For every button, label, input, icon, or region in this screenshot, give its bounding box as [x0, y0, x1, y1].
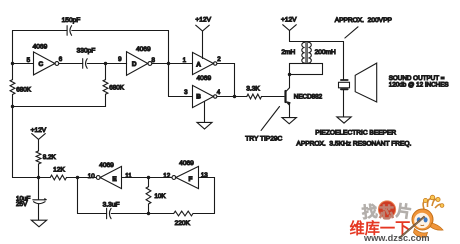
wire: rectangle loop below transformer windings	[290, 64, 323, 75]
inverter D (4069)	[127, 52, 148, 76]
wire: piezo to ground	[343, 90, 345, 117]
svg-text:4069: 4069	[99, 162, 114, 169]
svg-text:www.dzsc.com: www.dzsc.com	[363, 233, 430, 243]
resistor 680K left (in left rail)	[10, 80, 15, 95]
wire: B input from feedback rail	[169, 96, 193, 98]
power arrow +12V (A supply)	[196, 25, 210, 31]
svg-text:4069: 4069	[179, 160, 194, 167]
svg-text:片: 片	[395, 201, 413, 222]
svg-text:11: 11	[125, 172, 132, 179]
svg-text:+12V: +12V	[281, 17, 297, 24]
resistor 680K right	[103, 80, 108, 95]
node: junction at 680K right / D input	[104, 62, 107, 65]
svg-text:D: D	[132, 61, 137, 68]
wire: 10uF branch down	[38, 178, 40, 200]
svg-text:9: 9	[118, 56, 122, 63]
mascot arm/tail to the right	[431, 223, 444, 230]
wire: feedback vertical at x=77.8	[77, 178, 79, 214]
svg-text:+12V: +12V	[31, 127, 47, 134]
svg-text:APPROX. 200VPP: APPROX. 200VPP	[335, 17, 393, 24]
svg-text:12K: 12K	[53, 166, 65, 173]
node: 8.2K / 10uF junction	[37, 176, 40, 179]
svg-text:PIEZOELECTRIC BEEPER: PIEZOELECTRIC BEEPER	[315, 129, 396, 136]
wire: top feedback rail y=30.4	[13, 30, 169, 32]
svg-text:4069: 4069	[196, 75, 211, 82]
mascot crown	[423, 199, 441, 209]
svg-text:NECD882: NECD882	[294, 93, 323, 100]
svg-text:C: C	[38, 61, 43, 68]
inverter E (4069), output bubble at left	[96, 176, 100, 180]
transistor Q1 NECD882: base bar	[284, 91, 286, 102]
svg-text:680K: 680K	[16, 87, 32, 94]
svg-text:F: F	[189, 176, 193, 183]
wire: B ground stem	[204, 102, 206, 123]
ground under inverter B	[197, 122, 212, 129]
resistor 8.2K	[36, 151, 41, 164]
svg-text:E: E	[112, 176, 117, 183]
node: bottom wire junction on left rail	[11, 105, 14, 108]
node: A/B outputs join	[233, 95, 236, 98]
svg-text:8.2K: 8.2K	[43, 154, 57, 161]
svg-text:200mH: 200mH	[315, 49, 336, 56]
wire: output drop to piezo	[343, 42, 345, 80]
transformer T1 primary winding 2mH	[302, 42, 305, 63]
svg-text:3.3K: 3.3K	[246, 85, 260, 92]
resistor 220K	[174, 211, 193, 216]
wire: supply stem into A	[202, 31, 204, 59]
wire: F input corner down	[199, 178, 215, 214]
transistor collector	[286, 75, 290, 92]
svg-text:5: 5	[27, 57, 31, 64]
ground under emitter	[282, 118, 296, 124]
svg-text:1: 1	[183, 57, 187, 64]
transistor emitter with arrow	[286, 101, 290, 117]
node: feedback rail joins A input	[167, 62, 170, 65]
wire: C output to 330pF	[59, 63, 83, 65]
wire: +12V stem to transformer top	[289, 31, 291, 42]
svg-text:TRY TIP29C: TRY TIP29C	[245, 136, 282, 143]
wire: C input	[13, 63, 34, 65]
svg-text:25V: 25V	[16, 201, 28, 208]
svg-text:6: 6	[59, 56, 63, 63]
wire: stem to 8.2K	[38, 139, 40, 151]
power arrow +12V (transformer)	[283, 25, 297, 31]
svg-text:4069: 4069	[136, 46, 151, 53]
node: 10K tap junction	[147, 176, 150, 179]
wire: A output corner down to B output	[217, 64, 235, 97]
wire: B output to 3.3K	[217, 96, 247, 98]
svg-text:12: 12	[163, 172, 170, 179]
svg-text:4069: 4069	[33, 44, 48, 51]
svg-text:10: 10	[88, 173, 95, 180]
svg-text:8: 8	[151, 57, 155, 64]
capacitor 3.3uF	[106, 208, 108, 218]
ground under 10uF	[31, 220, 46, 227]
transformer T1 secondary winding 200mH	[308, 42, 311, 63]
speaker horn	[355, 63, 377, 102]
wire: transformer top rail	[290, 41, 344, 43]
resistor 3.3K	[247, 94, 262, 99]
wire: D output to A input	[152, 63, 193, 65]
svg-text:3.3uF: 3.3uF	[103, 201, 120, 208]
svg-text:芯: 芯	[379, 204, 394, 222]
wire: right 680K branch down from node	[13, 64, 106, 107]
pointer line to transistor	[261, 107, 279, 131]
capacitor 10uF 25V polarized	[33, 199, 46, 201]
svg-text:330pF: 330pF	[77, 48, 96, 55]
inverter A (4069)	[193, 52, 214, 74]
svg-text:2mH: 2mH	[281, 49, 295, 56]
capacitor 330pF	[82, 59, 84, 69]
wire: 10uF to ground	[38, 204, 40, 220]
node: C input junction on left rail	[11, 62, 14, 65]
svg-text:220K: 220K	[175, 220, 191, 227]
svg-text:3: 3	[184, 89, 188, 96]
pointer line for 200VPP	[345, 27, 358, 38]
wire: left rail x=12.6 from top rail down to bottom oscillator rail	[12, 31, 14, 178]
node: feedback tap on rail	[76, 176, 79, 179]
ground under piezo	[337, 117, 351, 123]
power arrow +12V (bottom)	[32, 134, 46, 140]
svg-text:150pF: 150pF	[62, 17, 81, 24]
mascot body	[414, 229, 428, 238]
svg-text:APPROX. 3.5KHz RESONANT FREQ.: APPROX. 3.5KHz RESONANT FREQ.	[296, 140, 411, 147]
svg-text:+12V: +12V	[195, 17, 211, 24]
red circle behind 芯	[378, 201, 395, 218]
piezoelectric beeper (crystal symbol)	[341, 79, 348, 81]
wire: 8.2K to rail	[38, 164, 40, 178]
pen/stick	[400, 217, 425, 239]
resistor 12K	[50, 175, 66, 180]
svg-text:找: 找	[361, 201, 379, 222]
wire: 3.3K to transistor base	[262, 96, 285, 98]
wire: bottom oscillator rail y=177.1	[13, 177, 97, 179]
watermark logo dzsc	[348, 193, 460, 244]
node: collector tap on loop	[288, 73, 291, 76]
svg-text:120db @ 12 INCHES: 120db @ 12 INCHES	[389, 81, 449, 88]
svg-text:10K: 10K	[154, 193, 166, 200]
inverter F (4069), output bubble at left	[172, 176, 176, 180]
svg-text:2: 2	[217, 56, 221, 63]
resistor 10K vertical	[148, 178, 150, 214]
svg-text:A: A	[196, 61, 201, 68]
op-amp/inverter C (4069)	[34, 52, 55, 75]
wire: 330pF to D input	[87, 63, 126, 65]
node: 10K bottom junction	[147, 212, 150, 215]
svg-text:4: 4	[217, 89, 221, 96]
svg-text:B: B	[196, 94, 201, 101]
mascot head	[412, 209, 433, 230]
wire: E input to F output	[122, 177, 172, 179]
svg-text:680K: 680K	[109, 84, 125, 91]
wire: bottom feedback run	[78, 213, 215, 215]
inverter B (4069)	[193, 85, 214, 107]
transformer core	[306, 42, 307, 64]
wire: feedback vertical drop x=168.5	[168, 31, 170, 97]
capacitor C 150pF on top rail	[66, 26, 68, 36]
